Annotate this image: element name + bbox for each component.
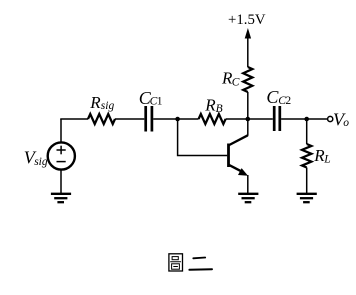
caption character 圖 [169, 254, 183, 271]
resistor Rsig [88, 114, 115, 124]
svg-text:R: R [89, 93, 101, 112]
ground under emitter [238, 194, 258, 202]
node A junction dot [175, 117, 180, 122]
resistor RC [243, 67, 252, 92]
wire: RC to node B [247, 92, 249, 119]
ground under Vsig [51, 194, 71, 202]
wire: CC1 to RB through node A [153, 118, 198, 120]
wire: emitter to ground [247, 175, 249, 193]
wire: Vsig top vertical to main rail [60, 119, 62, 142]
plus sign inside Vsig [57, 146, 66, 155]
source Vsig circle [48, 142, 75, 169]
svg-text:1: 1 [157, 95, 163, 107]
wire: supply arrow to RC [247, 37, 249, 68]
resistor RB [199, 114, 226, 124]
wire: RB to node B [226, 118, 273, 120]
svg-text:C: C [232, 77, 240, 89]
svg-text:sig: sig [34, 156, 48, 168]
transistor Q1 collector lead [229, 135, 248, 145]
transistor Q1 emitter lead with arrow [229, 165, 249, 176]
svg-text:o: o [343, 117, 349, 129]
wire: node A down to base lead [178, 119, 228, 156]
wire: Rsig to CC1 [115, 118, 144, 120]
output terminal circle Vo [328, 116, 333, 121]
ground under RL [297, 194, 317, 202]
transistor Q1 base bar [227, 144, 230, 168]
wire: CC2 to output terminal through node C [281, 118, 327, 120]
svg-text:L: L [323, 154, 330, 166]
svg-text:B: B [216, 103, 223, 115]
wire: RL to ground [306, 168, 308, 194]
svg-text:+1.5V: +1.5V [228, 12, 266, 28]
wire: collector to node B [247, 119, 249, 136]
wire: node C down to RL [306, 119, 308, 144]
supply arrowhead [245, 28, 251, 39]
svg-text:R: R [204, 96, 216, 115]
minus sign inside Vsig [57, 161, 66, 163]
node C junction dot (output node) [304, 117, 309, 122]
resistor RL [302, 144, 311, 168]
svg-text:sig: sig [101, 100, 115, 112]
node B junction dot (collector node) [246, 117, 251, 122]
caption character 二 [189, 258, 212, 270]
svg-text:2: 2 [285, 95, 291, 107]
capacitor CC2 [274, 106, 280, 131]
capacitor CC1 [146, 106, 152, 132]
wire: main rail from Vsig corner to Rsig [60, 118, 88, 120]
wire: Vsig bottom to ground [60, 170, 62, 193]
